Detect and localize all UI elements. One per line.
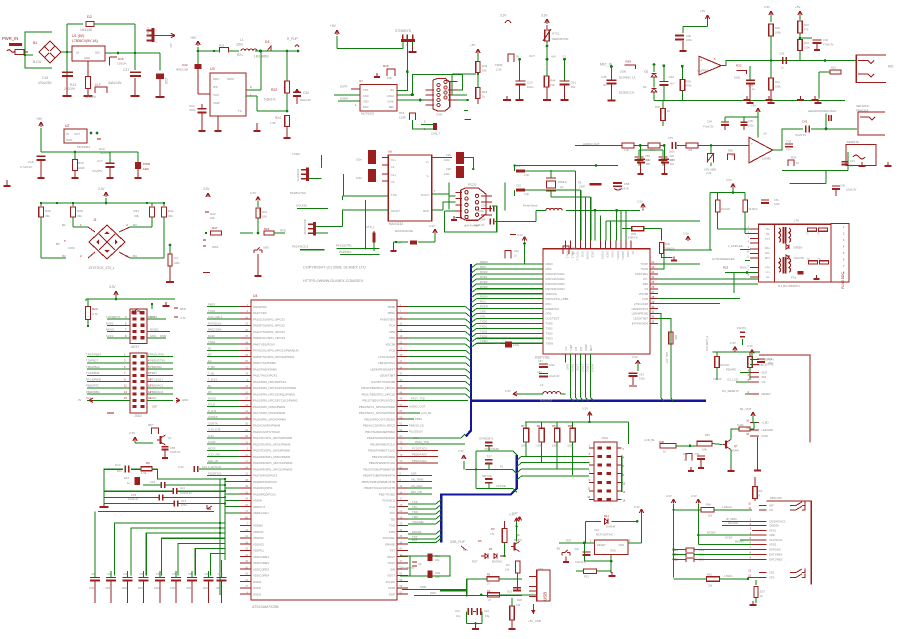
svg-text:PA1/TXD0: PA1/TXD0: [253, 311, 267, 315]
svg-text:PA27/DRXD/PCK3: PA27/DRXD/PCK3: [253, 474, 278, 478]
svg-text:C61: C61: [571, 81, 577, 85]
svg-text:100k: 100k: [734, 76, 741, 80]
svg-text:VDDPLL: VDDPLL: [253, 549, 265, 553]
svg-text:P.07/SCLK: P.07/SCLK: [208, 321, 222, 325]
svg-text:PC8: PC8: [389, 505, 395, 509]
svg-text:2.2k: 2.2k: [706, 171, 712, 175]
svg-text:C41: C41: [802, 120, 808, 124]
cap C46 filled near bus: [495, 341, 520, 348]
jumper block standby tst erase: [458, 437, 517, 493]
mcu left pin stubs and numbers: [240, 304, 251, 595]
svg-text:LB23/DUPL3: LB23/DUPL3: [632, 307, 649, 311]
svg-text:LCD_3(5)-1: LCD_3(5)-1: [208, 315, 223, 319]
svg-text:33k: 33k: [168, 214, 173, 218]
svg-text:180n: 180n: [669, 151, 675, 154]
svg-text:1.5Sk/1: 1.5Sk/1: [724, 575, 733, 578]
svg-text:+: +: [701, 59, 703, 63]
svg-text:BUT1: BUT1: [113, 315, 121, 319]
svg-text:-B1: -B1: [556, 547, 561, 551]
svg-text:R23: R23: [92, 307, 98, 311]
mcp2551 left wires: [334, 85, 360, 108]
cap C48 mic: [601, 67, 617, 101]
svg-text:R36: R36: [655, 105, 660, 109]
mcu right pin stubs: [397, 304, 408, 595]
svg-text:+5V: +5V: [190, 36, 197, 40]
wire max-to-crystal rail: [515, 164, 619, 167]
svg-text:RESET: RESET: [597, 543, 606, 547]
mcu right NC red rows: [408, 446, 438, 463]
svg-text:C18: C18: [131, 493, 137, 497]
connector UEXT 2x5: [130, 309, 147, 349]
svg-text:STANDBYL: STANDBYL: [479, 437, 494, 441]
svg-text:CS: CS: [762, 380, 766, 384]
svg-text:PA19/CANRX/PWM5: PA19/CANRX/PWM5: [253, 424, 281, 428]
svg-text:TDO: TDO: [412, 510, 419, 514]
svg-text:MUTOSIZE: MUTOSIZE: [485, 447, 500, 451]
svg-text:TCK/PB28: TCK/PB28: [86, 371, 100, 375]
svg-text:XIN: XIN: [390, 567, 395, 571]
zener diodes D1 D2: [619, 63, 657, 100]
svg-text:B3: B3: [133, 223, 137, 227]
svg-text:VCC: VCC: [213, 93, 220, 97]
connector SD MMC bracket: [767, 496, 812, 585]
svg-text:DAT0/DO: DAT0/DO: [769, 548, 782, 552]
sd card detect: [674, 573, 760, 588]
caps row feeders: [95, 512, 222, 571]
svg-text:RXDV/PCS_LPBK: RXDV/PCS_LPBK: [546, 297, 569, 301]
cap C18: [104, 493, 225, 501]
svg-text:3.3V: 3.3V: [500, 14, 507, 18]
usb series resistors: [440, 573, 537, 603]
svg-text:VO: VO: [95, 51, 100, 55]
wires uart to max: [342, 196, 388, 250]
svg-text:120R: 120R: [399, 116, 406, 120]
svg-text:PB38/RD: PB38/RD: [150, 365, 162, 369]
supply 3.3V trim: [500, 14, 511, 24]
svg-text:GND2: GND2: [606, 251, 609, 258]
svg-text:PC0/NCS: PC0/NCS: [382, 499, 395, 503]
svg-text:R1IN: R1IN: [423, 209, 429, 213]
svg-text:R55: R55: [568, 424, 573, 428]
svg-text:2.5V: 2.5V: [726, 178, 732, 182]
svg-text:DNTR: DNTR: [340, 85, 348, 89]
svg-text:CRS: CRS: [546, 312, 552, 316]
svg-text:LED: LED: [143, 167, 150, 171]
svg-text:KS8721BL: KS8721BL: [535, 356, 550, 360]
svg-text:+5V: +5V: [700, 9, 705, 13]
svg-text:R60: R60: [674, 335, 678, 340]
svg-text:PB13/SPC1_NPCS1/PWM2: PB13/SPC1_NPCS1/PWM2: [359, 405, 396, 409]
svg-text:PB29: PB29: [415, 417, 422, 421]
labels 5V OUT AIN rows: [516, 54, 566, 61]
svg-text:C46: C46: [495, 341, 501, 345]
svg-text:RXD1: RXD1: [150, 315, 158, 319]
svg-text:GND: GND: [150, 334, 156, 338]
can l wire: [397, 99, 426, 102]
svg-text:PB14/SPC1_NPCS2/PWM3: PB14/SPC1_NPCS2/PWM3: [359, 411, 396, 415]
svg-text:PB16/LCD/GPLN_NPCS: PB16/LCD/GPLN_NPCS: [363, 424, 395, 428]
uext right wires: [147, 315, 170, 338]
svg-text:RXD: RXD: [280, 229, 286, 233]
jtag left wires: [78, 352, 130, 402]
svg-text:R49: R49: [631, 232, 636, 236]
diode D2 1N4148: [67, 15, 135, 53]
db9 pin stubs: [455, 192, 492, 217]
svg-text:VDDRX: VDDRX: [586, 251, 589, 260]
power jack J?: [7, 50, 28, 55]
svg-text:C15: C15: [42, 76, 48, 80]
svg-text:C48: C48: [601, 75, 607, 79]
svg-text:3.3V_DJ5: 3.3V_DJ5: [208, 428, 221, 432]
svg-text:PC4: PC4: [389, 324, 395, 328]
mcu right label rows: [405, 405, 432, 440]
sw1 boot block right: [203, 187, 222, 273]
svg-text:T_B1: T_B1: [208, 371, 215, 375]
svg-text:PA30/IRQ0/PCK2: PA30/IRQ0/PCK2: [253, 492, 276, 496]
svg-text:MDIO: MDIO: [546, 262, 554, 266]
label SOUND: [296, 204, 328, 209]
label PA28 CTS0: [290, 191, 306, 195]
svg-text:PA31: PA31: [388, 561, 395, 565]
svg-text:18p: 18p: [435, 558, 440, 562]
svg-text:PA28/CTS0: PA28/CTS0: [290, 191, 306, 195]
svg-text:PC8: PC8: [643, 297, 649, 301]
pullup rail arrow B_PUP: [287, 37, 299, 52]
svg-text:10k: 10k: [482, 69, 487, 73]
mcu lower-left wires: [115, 482, 240, 569]
svg-text:C45: C45: [748, 119, 753, 123]
svg-text:R21: R21: [775, 80, 780, 84]
svg-text:1V8: 1V8: [576, 346, 578, 351]
svg-text:PA7/SCK1/SPI0_NPCS1/PWM0LM: PA7/SCK1/SPI0_NPCS1/PWM0LM: [253, 349, 299, 353]
svg-text:PA29/FIQ/SPI1: PA29/FIQ/SPI1: [253, 486, 273, 490]
nc mark: [107, 412, 114, 414]
svg-text:R24: R24: [264, 227, 270, 231]
svg-text:100n: 100n: [138, 586, 144, 590]
reset wires: [559, 521, 642, 571]
svg-text:3.3V: 3.3V: [637, 200, 643, 204]
svg-text:PA14/SPI0_NPCS2/IRQ1/PWM1: PA14/SPI0_NPCS2/IRQ1/PWM1: [253, 392, 296, 396]
svg-text:PB25/TIOB1/PWM87/4TB: PB25/TIOB1/PWM87/4TB: [362, 480, 395, 484]
svg-text:R9: R9: [146, 461, 150, 465]
svg-text:PA25/RK/SPI1_NPCS1/PWM2: PA25/RK/SPI1_NPCS1/PWM2: [253, 461, 293, 465]
svg-text:C2: C2: [91, 572, 95, 576]
crystal Q3 25MHz: [546, 170, 567, 197]
svg-text:SCK0: SCK0: [725, 536, 733, 540]
svg-text:DDM: DDM: [420, 585, 427, 589]
svg-text:PB22/PWMD/TIOA2: PB22/PWMD/TIOA2: [369, 461, 396, 465]
svg-text:PB10/TIB2/SPC1_NPCS1: PB10/TIB2/SPC1_NPCS1: [361, 386, 395, 390]
component D15: [124, 476, 140, 485]
svg-text:RXD2/PHYAD3: RXD2/PHYAD3: [546, 282, 566, 286]
svg-text:NRST: NRST: [387, 555, 395, 559]
svg-text:LCD_BL: LCD_BL: [421, 411, 432, 415]
svg-text:C5: C5: [140, 572, 144, 576]
jtag2 right gnd rail: [621, 422, 629, 492]
svg-text:P_RJ1: P_RJ1: [208, 409, 217, 413]
svg-text:3.3V: 3.3V: [691, 494, 697, 498]
svg-text:AGND: AGND: [585, 344, 588, 351]
svg-text:C3: C3: [107, 572, 111, 576]
svg-text:PA18/SPI0_SPCK/PWM4: PA18/SPI0_SPCK/PWM4: [253, 417, 286, 421]
svg-text:MAX3232CSE: MAX3232CSE: [395, 229, 413, 233]
svg-text:GNDPLL: GNDPLL: [621, 251, 624, 261]
svg-text:MMC/SD: MMC/SD: [770, 496, 782, 500]
ferrite box: [846, 140, 876, 166]
svg-text:1.2VD: 1.2VD: [576, 364, 579, 371]
svg-text:R41: R41: [262, 210, 268, 214]
svg-text:3.3V: 3.3V: [129, 431, 135, 435]
svg-text:PB18/NANDWE/3302: PB18/NANDWE/3302: [367, 436, 395, 440]
svg-text:470p: 470p: [791, 278, 797, 280]
svg-text:RXD1: RXD1: [106, 321, 114, 325]
svg-text:47u/6.3V: 47u/6.3V: [823, 43, 834, 47]
svg-text:C35: C35: [779, 52, 785, 56]
ground: [100, 503, 109, 507]
svg-text:U9: U9: [763, 132, 767, 136]
svg-text:49.9/1%: 49.9/1%: [721, 208, 731, 211]
svg-text:BLM31/DR: BLM31/DR: [540, 400, 552, 403]
bridge rectifier B1: [33, 41, 61, 64]
mcu right AD rows: [408, 471, 432, 494]
svg-text:TXD1: TXD1: [546, 327, 554, 331]
svg-text:PB26/RTC: PB26/RTC: [86, 384, 99, 388]
svg-text:C31: C31: [574, 547, 579, 551]
svg-text:B1: B1: [33, 41, 37, 45]
resistor R32 100k fb: [734, 64, 746, 80]
svg-text:+5V: +5V: [751, 104, 756, 108]
svg-text:U6: U6: [388, 150, 392, 154]
svg-text:CONFK: CONFK: [208, 415, 218, 419]
svg-text:U1 (5V): U1 (5V): [72, 34, 84, 38]
svg-text:T_B-10: T_B-10: [208, 378, 218, 382]
svg-text:AN_AUD: AN_AUD: [411, 484, 422, 488]
svg-text:FW-PC: FW-PC: [737, 326, 746, 330]
resistor R36: [655, 100, 670, 126]
svg-text:LY+: LY+: [766, 271, 771, 274]
3.3V arrow mid: [510, 233, 527, 264]
svg-text:PA20/CANTX/TIOA0: PA20/CANTX/TIOA0: [253, 430, 280, 434]
svg-text:3V: 3V: [78, 398, 82, 402]
svg-text:100n: 100n: [121, 586, 127, 590]
resistor R23 4.7k: [86, 299, 98, 327]
svg-text:R28: R28: [686, 80, 692, 84]
cap C58 10u: [613, 182, 630, 191]
svg-text:R43: R43: [482, 64, 488, 68]
pll cap 3.3V: [178, 465, 225, 472]
svg-text:GND1: GND1: [591, 251, 594, 258]
svg-text:D15: D15: [124, 476, 130, 480]
svg-text:D5: D5: [208, 390, 212, 394]
svg-text:PB23/TIOB2/PWM6/T00: PB23/TIOB2/PWM6/T00: [364, 467, 396, 471]
svg-text:R23: R23: [804, 41, 809, 45]
vertical rails left of MCU: [219, 478, 226, 595]
avcc filter staple: [505, 249, 519, 259]
svg-text:33k: 33k: [77, 214, 82, 218]
svg-text:R64: R64: [706, 503, 711, 507]
svg-text:ERASE: ERASE: [412, 530, 422, 534]
svg-text:220u/16: 220u/16: [300, 98, 311, 102]
lcd signal wires: [713, 368, 750, 394]
svg-text:PA24/DCD1: PA24/DCD1: [292, 245, 308, 249]
svg-text:AUX/3STR: AUX/3STR: [297, 169, 300, 181]
svg-text:100R: 100R: [78, 166, 85, 170]
svg-text:RXD3: RXD3: [480, 285, 488, 289]
svg-text:D1: D1: [489, 547, 493, 551]
svg-text:5V: 5V: [516, 55, 520, 59]
boot SW2 block: [240, 191, 286, 276]
svg-text:VSS1: VSS1: [769, 529, 777, 533]
cap C49: [474, 218, 536, 228]
phy xtal vertical wires: [551, 171, 591, 240]
svg-text:B+: B+: [208, 384, 212, 388]
svg-text:LCDXTAL: LCDXTAL: [762, 363, 775, 367]
svg-text:PA21/TF/SPI1_NPCS0/PWM5: PA21/TF/SPI1_NPCS0/PWM5: [253, 436, 292, 440]
svg-text:MOS2: MOS2: [208, 396, 216, 400]
svg-text:C9: C9: [204, 572, 208, 576]
svg-text:TXD2: TXD2: [480, 329, 488, 333]
svg-text:RXD0: RXD0: [480, 270, 488, 274]
cap C32: [659, 64, 675, 100]
svg-text:PB28/A4D3: PB28/A4D3: [412, 453, 427, 457]
svg-text:GND: GND: [150, 396, 156, 400]
svg-text:PA17/SPI0_MOSI/PWM3: PA17/SPI0_MOSI/PWM3: [253, 411, 286, 415]
svg-text:F023/F101: F023/F101: [208, 471, 222, 475]
svg-text:C20: C20: [435, 571, 441, 575]
usb vbus: [528, 603, 541, 623]
r23 bottom transformer: [723, 266, 758, 294]
transformer magnetics box: [759, 219, 832, 282]
jumper X2 3pin header: [146, 27, 171, 44]
svg-text:R47: R47: [212, 226, 218, 230]
svg-text:SCK: SCK: [762, 371, 768, 375]
svg-text:D11: D11: [604, 514, 609, 518]
svg-text:L7805CV(5V 1A): L7805CV(5V 1A): [72, 39, 98, 43]
svg-text:V-: V-: [427, 174, 430, 178]
svg-text:C53: C53: [516, 184, 521, 188]
svg-text:3.3V: 3.3V: [178, 465, 184, 469]
svg-text:R5C: R5C: [705, 433, 710, 437]
svg-text:PA13/SPI0_NPCS1/PCK1/PWM0: PA13/SPI0_NPCS1/PCK1/PWM0: [253, 386, 296, 390]
svg-text:CP2: CP2: [769, 575, 775, 579]
svg-text:LCDPLA+: LCDPLA+: [762, 358, 775, 362]
label MIC_IN: [600, 63, 613, 69]
svg-text:CRS: CRS: [480, 310, 486, 314]
svg-text:100R: 100R: [579, 186, 585, 189]
phy caps C47 C46: [537, 359, 560, 378]
svg-text:STNDBYS: STNDBYS: [395, 29, 412, 33]
svg-text:120k: 120k: [552, 444, 558, 448]
svg-text:RADI: RADI: [208, 334, 215, 338]
svg-text:VDDCORE4: VDDCORE4: [253, 574, 269, 578]
svg-text:152: 152: [571, 85, 576, 89]
svg-text:A.31: A.31: [208, 434, 214, 438]
svg-text:SCK1: SCK1: [106, 334, 114, 338]
svg-text:220u: 220u: [236, 43, 243, 47]
svg-text:C31: C31: [850, 159, 855, 163]
cap C38 1u: [746, 66, 755, 103]
svg-text:R44: R44: [550, 79, 556, 83]
svg-text:2AVDD: 2AVDD: [570, 364, 573, 372]
svg-text:PA5/RXD1/SPI1_NPCS3: PA5/RXD1/SPI1_NPCS3: [253, 336, 285, 340]
svg-text:1.5k: 1.5k: [650, 148, 656, 152]
svg-text:47u/6.3V: 47u/6.3V: [703, 125, 714, 129]
mcu right wire rows 22: [408, 440, 465, 444]
svg-text:PA22_TXD: PA22_TXD: [415, 440, 429, 444]
svg-text:E3: E3: [208, 359, 212, 363]
cap C11: [104, 486, 225, 495]
svg-text:AVC: AVC: [572, 246, 577, 250]
svg-text:INT/PHYAD0: INT/PHYAD0: [632, 322, 649, 326]
tx termination resistors 49.9: [710, 191, 758, 250]
svg-text:DNWA: DNWA: [340, 97, 348, 101]
svg-text:4.7k: 4.7k: [180, 316, 186, 320]
svg-text:PB4: PB4: [390, 336, 396, 340]
svg-text:PA6/TXD1/PCK0: PA6/TXD1/PCK0: [253, 342, 275, 346]
svg-text:C23: C23: [527, 81, 533, 85]
svg-text:PA11/TWCK/PCK1: PA11/TWCK/PCK1: [253, 374, 278, 378]
svg-text:PB15/GRDOV/T1RSDU: PB15/GRDOV/T1RSDU: [364, 417, 395, 421]
svg-text:B1: B1: [62, 223, 66, 227]
svg-text:R31: R31: [584, 575, 589, 579]
svg-text:PA26/RF/SPI1_NPCS2/PWM3: PA26/RF/SPI1_NPCS2/PWM3: [253, 467, 293, 471]
wire 3.3V rail joystick: [40, 202, 165, 205]
svg-text:RXC: RXC: [480, 300, 486, 304]
can db9 right wires: [452, 74, 471, 119]
svg-text:C1+: C1+: [391, 158, 396, 162]
resistor R39 33k: [71, 202, 88, 227]
cap C42 47n: [785, 140, 793, 152]
svg-text:120/1%: 120/1%: [85, 95, 96, 99]
phy left inside names: [546, 262, 569, 345]
svg-text:RXC: RXC: [546, 302, 552, 306]
svg-text:+: +: [751, 142, 753, 146]
svg-text:SMF40FD: SMF40FD: [856, 104, 869, 108]
svg-text:OUT: OUT: [529, 54, 535, 58]
svg-text:D2T: D2T: [760, 590, 765, 594]
svg-text:TST: TST: [487, 455, 493, 459]
resistor R24 below: [270, 116, 291, 139]
svg-text:PA25/RI1: PA25/RI1: [339, 250, 352, 254]
svg-text:R34: R34: [791, 156, 797, 160]
svg-text:P.SJ2: P.SJ2: [208, 403, 216, 407]
lcd backlight transistor: [644, 416, 761, 471]
svg-text:R19: R19: [78, 161, 84, 165]
regulator U1 7805: [72, 34, 160, 76]
svg-text:R42: R42: [168, 209, 174, 213]
svg-text:CONTK: CONTK: [208, 421, 218, 425]
svg-text:MCP2551: MCP2551: [361, 112, 375, 116]
svg-text:100n: 100n: [216, 586, 222, 590]
svg-text:VDDFLASH: VDDFLASH: [253, 511, 268, 515]
svg-text:C55: C55: [645, 154, 650, 158]
sd 3.3V arrows: [666, 494, 701, 577]
slow crystal Q2 32768: [400, 554, 450, 580]
supply 2.5V rx: [713, 341, 774, 380]
svg-text:TCT: TCT: [765, 238, 770, 241]
svg-text:Q7: Q7: [734, 444, 738, 448]
svg-text:C38: C38: [669, 154, 674, 158]
svg-text:LM386: LM386: [762, 157, 771, 161]
resistor R15 120R: [399, 100, 433, 129]
svg-text:CD1: CD1: [769, 571, 775, 575]
capacitor C28 100n: [156, 74, 168, 96]
svg-text:R1OUT: R1OUT: [391, 209, 400, 213]
svg-text:+5V: +5V: [169, 43, 172, 48]
svg-text:MDIA: MDIA: [740, 266, 747, 270]
svg-text:VDD2: VDD2: [611, 251, 614, 258]
svg-text:CAN: CAN: [436, 113, 442, 117]
